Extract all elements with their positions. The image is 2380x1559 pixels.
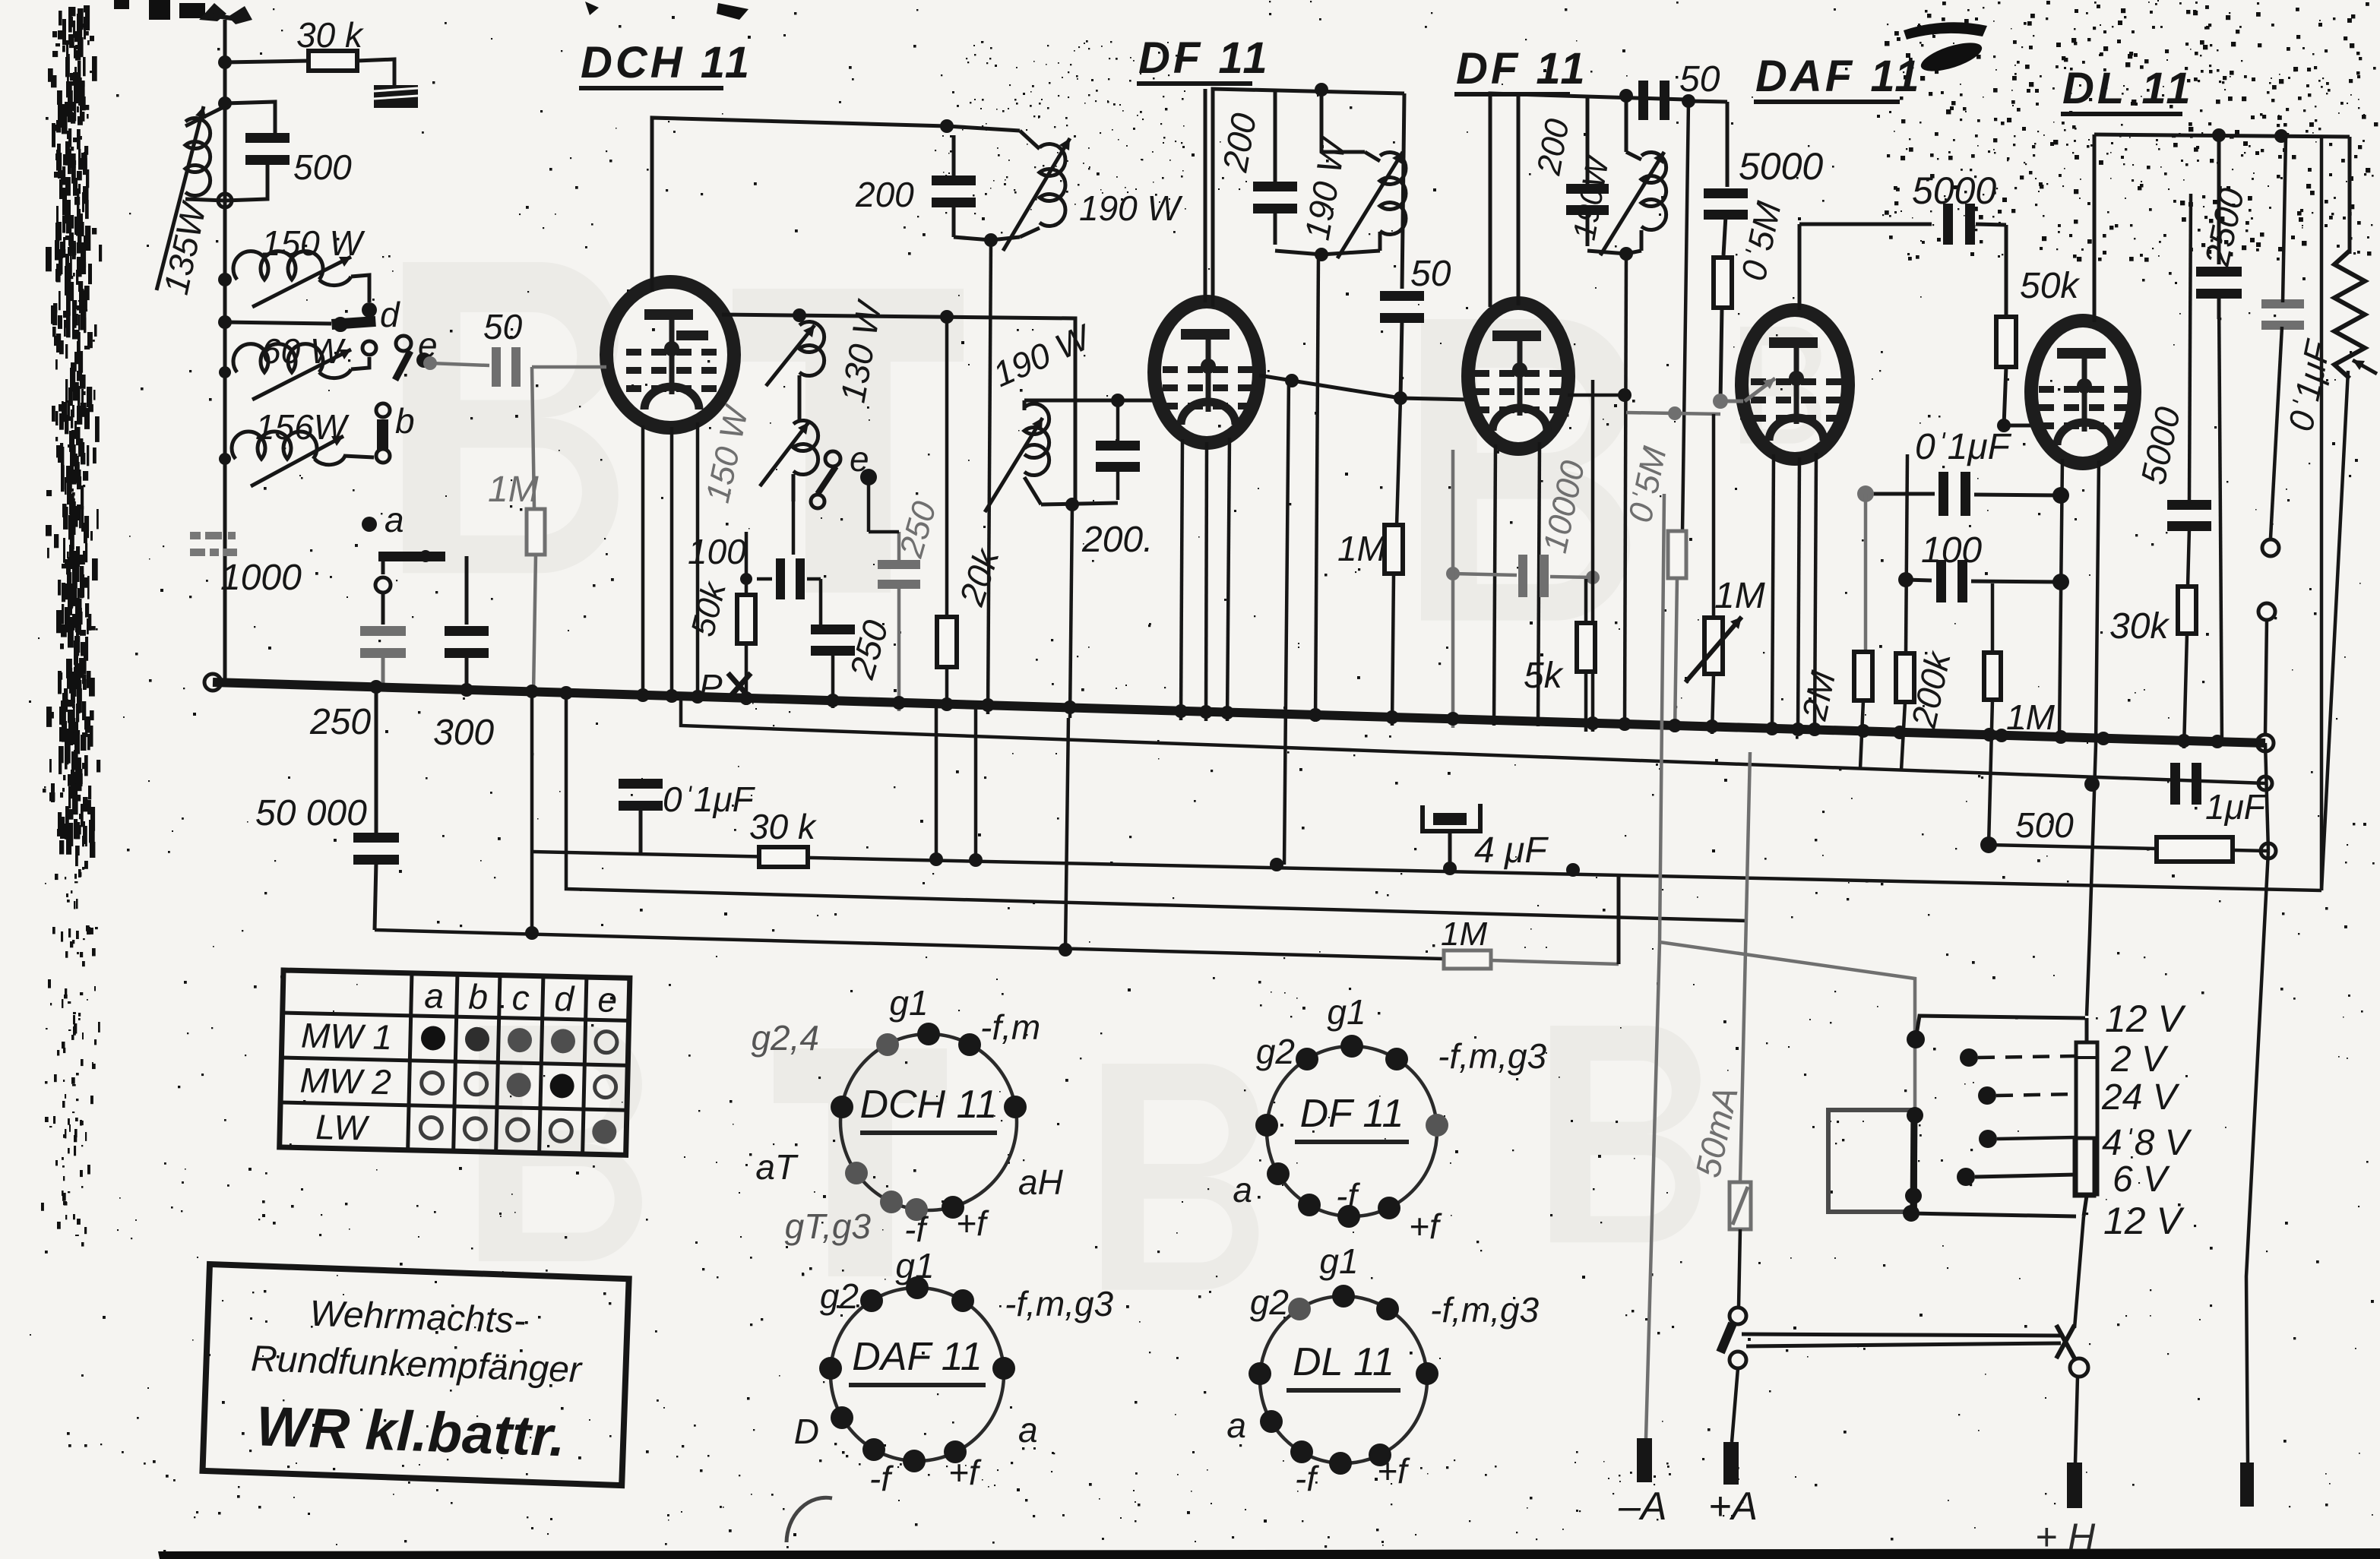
DF1 grid top wire (1204, 89, 1207, 302)
wire tank bottom (225, 190, 267, 201)
svg-text:150 W: 150 W (261, 223, 366, 263)
fuse 50mA (1730, 1182, 1751, 1229)
DF2 grid right line (1568, 394, 1626, 397)
bus (main horizontal) (213, 682, 2265, 743)
bus left terminal (204, 674, 221, 691)
coil 190W DF2 (1626, 152, 1641, 160)
svg-text:a: a (1226, 1406, 1246, 1445)
node 60W branch (218, 315, 232, 329)
svg-text:500: 500 (2015, 805, 2074, 845)
svg-text:1M: 1M (488, 470, 539, 510)
DF2 tank rails (1490, 93, 1685, 307)
svg-text:100: 100 (1921, 530, 1982, 571)
coil 190W tank2 (1023, 400, 1027, 410)
terminal bottom right (2240, 1463, 2254, 1507)
svg-text:1M: 1M (1337, 529, 1387, 568)
svg-text:4 μF: 4 μF (1474, 830, 1549, 871)
tap 48V (1979, 1130, 1997, 1148)
svg-text:+f: +f (948, 1453, 982, 1492)
input line from e (430, 363, 489, 365)
node tank bottom (218, 194, 232, 207)
resistor 500 (1980, 836, 1997, 853)
svg-text:-f: -f (1336, 1176, 1360, 1216)
wire a-col (381, 561, 385, 574)
svg-text:156W: 156W (255, 407, 350, 447)
DL top rail 2 (2163, 93, 2348, 322)
capacitor 1uF (2170, 763, 2180, 805)
svg-text:+A: +A (1708, 1485, 1758, 1529)
contact e2 dot (860, 469, 877, 485)
arrow 130W (766, 325, 815, 386)
DAF legs (1772, 454, 1774, 732)
svg-text:g2: g2 (1250, 1282, 1289, 1322)
capacitor 250 black (811, 625, 855, 634)
bottom scan border (158, 1548, 2380, 1559)
wire right column lower (2321, 371, 2348, 890)
svg-text:-f: -f (1295, 1459, 1319, 1498)
svg-text:12 V: 12 V (2105, 998, 2187, 1040)
node DL grid (1997, 419, 2011, 432)
DF1 grid line right (1259, 375, 1468, 400)
1M rail left nodes (525, 926, 539, 940)
wire 20k to bus (945, 666, 949, 705)
tube DF11 a (1154, 302, 1259, 443)
node 156W branch (219, 453, 231, 465)
tank2 bottom rail (1041, 503, 1118, 504)
wire 2M top (1864, 651, 1866, 653)
svg-text:e: e (597, 979, 618, 1020)
pinout DCH11 (751, 983, 1063, 1249)
node 50k top (740, 573, 752, 585)
wire a-col2 (381, 593, 385, 625)
bus junction dots (369, 680, 383, 694)
svg-text:50: 50 (1679, 59, 1720, 100)
wire gray tube left (532, 365, 606, 369)
svg-text:DCH 11: DCH 11 (581, 38, 752, 87)
loudspeaker square (1828, 1110, 1915, 1212)
capacitor 500 (antenna tank) (245, 133, 290, 143)
wire osc cluster down (792, 495, 796, 555)
line L2 (1M rail) (375, 930, 1444, 959)
capacitor 2500 (2217, 135, 2221, 264)
wire fuse down (1739, 1229, 1740, 1307)
wire col 700 below bus (530, 693, 534, 933)
svg-text:24 V: 24 V (2101, 1077, 2180, 1118)
DF2 tank bottom (1587, 251, 1641, 254)
wire 10000 line (1453, 574, 1517, 575)
svg-text:MW 1: MW 1 (300, 1016, 392, 1058)
svg-text:a: a (385, 500, 404, 539)
coil 190W DF1 (1365, 152, 1380, 161)
svg-text:5000: 5000 (1739, 145, 1823, 188)
contact b circles (376, 403, 390, 417)
capacitor (right of 1000) (445, 626, 489, 636)
contact circle a-col (375, 577, 391, 593)
wire 150W to contact d (351, 275, 369, 302)
svg-text:g1: g1 (1319, 1241, 1358, 1281)
square right bar (1913, 1110, 1914, 1213)
switch H circle (2070, 1358, 2088, 1377)
svg-text:0ˈ1μF: 0ˈ1μF (1915, 427, 2012, 467)
svg-text:-f,m,g3: -f,m,g3 (1430, 1290, 1540, 1330)
ground box (374, 85, 418, 108)
tube DCH11 (606, 282, 734, 428)
wire coil top DF1 (1321, 90, 1365, 152)
svg-text:-f,m: -f,m (980, 1007, 1040, 1047)
junk stamp text (190, 532, 237, 556)
svg-text:DCH 11: DCH 11 (859, 1083, 997, 1127)
svg-text:2 V: 2 V (2110, 1039, 2169, 1080)
resistor 50k right (1996, 317, 2016, 367)
wire cap col down (819, 579, 823, 625)
arrow 130W lower (760, 422, 809, 486)
svg-text:30 k: 30 k (749, 807, 817, 846)
switch +A top circle (1730, 1308, 1746, 1324)
capacitor 200 DF1 (1253, 182, 1297, 191)
coil 190W (osc tank) (1020, 131, 1040, 149)
node 5000-2 (1931, 223, 1932, 225)
resistor 30k (top left) (309, 51, 357, 71)
svg-text:g1: g1 (889, 983, 928, 1023)
capacitor 01uF right (2261, 299, 2304, 308)
capacitor 200 DF2 (1566, 184, 1609, 194)
resistor 1M mid (1385, 525, 1403, 574)
wire col 2096 (1591, 380, 1595, 732)
node 50cap right (1682, 94, 1695, 108)
tap 24V (1978, 1086, 1996, 1105)
terminal -A (1637, 1438, 1652, 1482)
svg-text:MW 2: MW 2 (299, 1061, 391, 1102)
DF2 grid top wire (1517, 93, 1521, 305)
resistor 1M (DCH grid) (527, 509, 545, 555)
wire 50k col (745, 532, 748, 593)
contact bar d (331, 316, 376, 330)
svg-text:1M: 1M (2006, 697, 2056, 737)
svg-text:1M: 1M (1714, 576, 1765, 616)
wire tank2 down (1070, 504, 1072, 718)
terminal +H (2067, 1463, 2082, 1508)
switch e2 circle (825, 451, 840, 466)
wire colB 2273 (1726, 102, 1730, 187)
svg-text:60 W: 60 W (261, 331, 347, 371)
wire osc rail left (652, 118, 947, 292)
wire +A line (1740, 752, 1750, 1182)
svg-text:a: a (424, 976, 445, 1016)
coil 150W (233, 251, 323, 280)
legs to L1 cols (935, 705, 938, 859)
svg-text:200.: 200. (1081, 520, 1153, 560)
resistor 30k (on L1) (759, 847, 808, 867)
svg-text:a: a (1233, 1170, 1252, 1210)
capacitor 4uF (1423, 804, 1480, 831)
svg-text:50: 50 (483, 307, 523, 346)
node osc rail (940, 119, 954, 133)
line L1 (30k rail) (532, 852, 2321, 890)
arrow tank2 (985, 418, 1043, 512)
node 60W (219, 366, 231, 378)
node 150W branch (218, 273, 232, 286)
svg-text:50 000: 50 000 (255, 793, 367, 833)
switch +A lever (1720, 1323, 1733, 1352)
wire 2454 col (1864, 494, 1868, 652)
capacitor 100 mid (1936, 560, 1946, 602)
wire osc col down (945, 317, 949, 618)
line C (566, 694, 1748, 921)
coil 130W lower (793, 421, 818, 475)
wire 60W right (351, 357, 369, 369)
node antenna-30k (218, 55, 232, 69)
capacitor 5000 DL (2189, 194, 2191, 500)
svg-text:aH: aH (1018, 1162, 1064, 1202)
wire right col mid (2265, 743, 2268, 851)
svg-text:b: b (395, 401, 415, 441)
capacitor 50 DF1 (1402, 93, 1404, 289)
DL top rail (2094, 134, 2350, 137)
svg-text:4ˈ8 V: 4ˈ8 V (2102, 1123, 2192, 1163)
tap 2V (1960, 1048, 1978, 1067)
wire e-col (867, 477, 871, 532)
wire 50000 down (375, 862, 376, 930)
wire to +A terminal (1732, 1368, 1738, 1442)
wire 2504 col (1906, 454, 1907, 653)
svg-text:d: d (554, 979, 575, 1019)
resistor 1M right (1984, 653, 2001, 700)
wire antenna down (223, 20, 227, 682)
wire 1M to bus (533, 555, 536, 693)
wire battery to switch (2075, 1216, 2084, 1328)
zigzag potentiometer (2334, 251, 2365, 378)
node DF1 50cap (1394, 391, 1407, 405)
switch lever e (395, 351, 410, 380)
svg-text:DF 11: DF 11 (1456, 44, 1588, 93)
resistor 50k (osc) (737, 595, 755, 644)
capacitor 5000 #2 (1943, 204, 1953, 245)
svg-text:50k: 50k (2020, 266, 2081, 306)
svg-text:500: 500 (293, 147, 352, 187)
coil 156W (232, 432, 317, 459)
resistor 2M (1854, 652, 1872, 700)
switch +A bottom circle (1730, 1352, 1746, 1368)
svg-text:190 W: 190 W (1079, 188, 1184, 228)
wire 1M rail up corner (1617, 874, 1621, 964)
pinout DL11 (1226, 1241, 1539, 1498)
tube DL11 (2031, 321, 2135, 463)
wire -A line (1646, 494, 1664, 1438)
svg-text:+f: +f (1377, 1451, 1410, 1491)
svg-text:-f,m,g3: -f,m,g3 (1438, 1036, 1547, 1076)
wire 1M mid (1394, 399, 1395, 524)
wire gray col 1912 (1451, 450, 1455, 728)
pinout DF11 (1233, 992, 1546, 1246)
wire DF2 tank down (1625, 254, 1626, 728)
capacitor 50 top right (1638, 81, 1648, 120)
wire to right terminal (2246, 851, 2268, 1463)
arrow 60W (252, 349, 351, 400)
arrow 1M variable (1685, 617, 1742, 682)
svg-text:DAF 11: DAF 11 (852, 1335, 983, 1379)
bus right terminal (2257, 735, 2274, 751)
wire 2920 down (2219, 296, 2222, 746)
capacitor 5000 #1 (1704, 188, 1748, 198)
svg-text:1μF: 1μF (2205, 787, 2268, 827)
svg-text:g1: g1 (1327, 992, 1366, 1032)
svg-text:b: b (468, 977, 489, 1017)
arrow DF2 coil (1600, 152, 1664, 255)
svg-text:Wehrmachts-: Wehrmachts- (309, 1294, 527, 1342)
svg-text:5000: 5000 (1912, 169, 1996, 212)
wire DL anode top (2093, 134, 2097, 322)
smudge circle (786, 1497, 832, 1542)
tank2 top rail (1024, 399, 1154, 403)
nodes on L1 (929, 852, 943, 866)
capacitor 1000 (360, 626, 406, 636)
L1 right corner up (2320, 137, 2324, 890)
svg-text:30 k: 30 k (296, 15, 364, 55)
svg-text:DAF 11: DAF 11 (1755, 52, 1923, 101)
svg-text:g2: g2 (1256, 1032, 1295, 1071)
wire square bottom to 12V (1911, 1212, 1913, 1213)
DF1 tank rails (1213, 89, 1404, 307)
svg-text:g1: g1 (895, 1246, 934, 1285)
svg-text:5k: 5k (1524, 656, 1565, 696)
coil 130W upper (799, 321, 824, 375)
svg-text:DF 11: DF 11 (1300, 1092, 1404, 1136)
arrow 135W variable (157, 106, 204, 290)
wire 50k col (2005, 225, 2008, 316)
resistor 05M #2 (1668, 531, 1686, 578)
wire grid col down (1284, 377, 1289, 865)
svg-text:200: 200 (855, 175, 914, 214)
wire to +H terminal (2075, 1377, 2078, 1463)
capacitor 250 gray (878, 560, 920, 569)
gray line to grid (1626, 413, 1720, 414)
resistor 30k right (2178, 587, 2196, 634)
svg-text:-f: -f (869, 1459, 894, 1498)
wire d-row (225, 322, 331, 324)
DAF anode line right (1799, 223, 1932, 226)
svg-text:12 V: 12 V (2103, 1200, 2185, 1242)
DCH legs (641, 425, 645, 693)
svg-text:300: 300 (433, 713, 494, 753)
svg-text:+f: +f (956, 1203, 989, 1243)
svg-text:1M: 1M (1441, 915, 1487, 953)
coil 135W (antenna tank) (185, 106, 225, 126)
wire to 30k (225, 61, 310, 62)
contact a dot (362, 517, 377, 532)
arrow 156W (251, 436, 343, 486)
wire cap2 col (465, 556, 469, 625)
contact e dot (416, 353, 432, 368)
resistor 200k (1896, 653, 1914, 702)
wire 156W right (343, 456, 383, 465)
wire DAF anode up (1798, 224, 1802, 310)
arrow 150W (252, 257, 351, 307)
capacitor 200 tank2 (1096, 441, 1140, 451)
tap 6V (1957, 1168, 1975, 1186)
svg-text:30k: 30k (2109, 606, 2170, 647)
arrow DF1 coil (1337, 152, 1403, 258)
DF1 tank bottom (1275, 251, 1380, 255)
osc tank bottom (954, 237, 1020, 240)
tube DAF11 (1742, 310, 1848, 459)
contact e circle (396, 336, 411, 351)
svg-text:+f: +f (1409, 1206, 1442, 1246)
capacitor 50000 (375, 693, 378, 833)
svg-text:DL 11: DL 11 (1293, 1340, 1394, 1384)
tube DF11 b (1468, 303, 1568, 449)
wire coil top DF2 (1625, 96, 1628, 152)
wire right column (2348, 137, 2352, 254)
arrow osc coil (1003, 138, 1070, 251)
osc tank rails (952, 135, 956, 185)
resistor 1M (lower middle) (1444, 950, 1491, 969)
capacitor 01uF (left) (619, 779, 663, 789)
svg-text:-f,m,g3: -f,m,g3 (1005, 1284, 1114, 1323)
capacitor 01uF mid (1938, 472, 1948, 516)
battery resistor (2076, 1042, 2097, 1194)
wire DCH anode rail (722, 315, 1075, 504)
contact bar a (378, 552, 445, 561)
wire DAF grid entry (1720, 400, 1743, 403)
svg-text:g2,4: g2,4 (751, 1018, 819, 1058)
contact d dot (362, 302, 377, 318)
wire 100 line (1906, 580, 1932, 580)
capacitor 50 (input) (492, 347, 501, 387)
band selector table (280, 970, 630, 1155)
node tank top (218, 96, 232, 110)
wire 01uF line (1866, 492, 1935, 496)
gray branch to square (1660, 942, 1915, 1108)
node DAF grid (1713, 394, 1728, 409)
svg-text:aT: aT (755, 1147, 799, 1187)
resistor 5k (1586, 577, 1593, 579)
wire osc tank down (988, 240, 991, 714)
svg-text:–A: –A (1618, 1485, 1667, 1529)
12V top hook (1907, 1030, 1925, 1048)
antenna (199, 3, 226, 21)
capacitor 10000 (1518, 555, 1527, 597)
wire 1M gray col (532, 367, 534, 508)
svg-text:LW: LW (315, 1107, 371, 1148)
svg-text:WR kl.battr.: WR kl.battr. (255, 1394, 567, 1468)
svg-text:c: c (511, 978, 530, 1018)
node DCH anode rail (793, 308, 806, 322)
wire osc rail to coil (947, 126, 1020, 131)
wire DL grid entry (2004, 424, 2033, 428)
svg-text:250: 250 (309, 702, 371, 742)
capacitor coupling (vert plates) (776, 558, 785, 599)
svg-text:50: 50 (1410, 254, 1451, 294)
wire rail to DAF col (1688, 101, 1727, 102)
contact 01uF right (2262, 539, 2279, 556)
pinout DAF11 (794, 1246, 1114, 1498)
switch X junction (2056, 1325, 2075, 1358)
svg-text:-f: -f (904, 1210, 929, 1249)
svg-text:d: d (380, 295, 400, 334)
terminal +A (1723, 1442, 1739, 1485)
contact circle above 60W (362, 341, 376, 355)
svg-text:D: D (794, 1412, 819, 1451)
DF1 legs (1181, 439, 1182, 720)
svg-text:g2: g2 (820, 1276, 859, 1316)
svg-text:gT,g3: gT,g3 (785, 1206, 872, 1246)
resistor 05M #1 (1714, 258, 1732, 308)
contact e2 lower circle (811, 495, 824, 508)
switch lever lines (1742, 1334, 2064, 1336)
coil 60W (233, 344, 323, 372)
svg-text:DL 11: DL 11 (2062, 64, 2194, 113)
svg-text:a: a (1018, 1410, 1038, 1450)
